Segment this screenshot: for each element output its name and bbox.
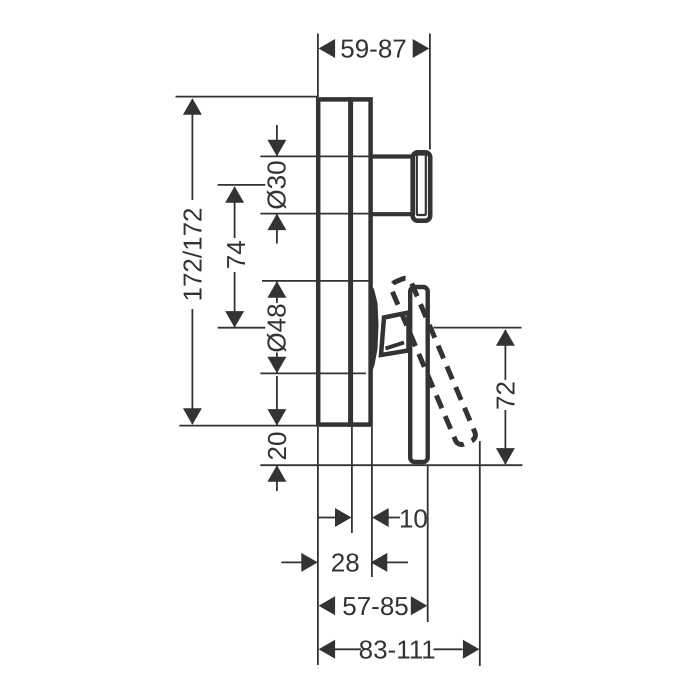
extension line plate right lower [371, 427, 373, 577]
handle lever dashed (tilted position) [389, 276, 477, 446]
spout flange outer [413, 152, 431, 220]
extension line lever right lower [427, 466, 429, 622]
reference line plate bottom [179, 425, 317, 427]
reference line top of plate [176, 96, 318, 98]
reference line pipe bottom [260, 213, 368, 215]
dim line 74 [234, 187, 236, 238]
arrow 172 top [183, 98, 202, 115]
arrow 28 left [301, 553, 318, 572]
dim tails 28 row [281, 561, 303, 563]
tick valve centerline left [218, 327, 266, 329]
arrow dia30 top [267, 140, 286, 157]
svg-text:72: 72 [490, 381, 520, 410]
pipe spout bottom line [371, 212, 411, 216]
arrow 83-111 right [463, 640, 480, 659]
handle lever solid (vertical position) [410, 287, 428, 462]
svg-text:57-85: 57-85 [342, 591, 409, 621]
svg-text:83-111: 83-111 [359, 634, 436, 664]
svg-text:Ø30: Ø30 [262, 160, 292, 209]
extension line 59-87 left [317, 34, 319, 98]
arrow 72 top [496, 329, 515, 346]
arrow 10 left [335, 508, 352, 527]
reference line valve bottom [260, 372, 366, 374]
dim line 72 [504, 330, 506, 380]
arrowheads [183, 39, 515, 659]
arrow dia30 bottom [267, 214, 286, 231]
extension line 59-87 right [429, 34, 431, 150]
arrow 172 bottom [183, 408, 202, 425]
reference line valve center right [434, 327, 522, 329]
svg-text:172/172: 172/172 [177, 208, 207, 302]
extension line plate left lower [317, 427, 319, 665]
arrow 72 bottom [496, 448, 515, 465]
svg-text:28: 28 [331, 547, 360, 577]
reference line lever bottom [260, 464, 522, 466]
plate divider line [348, 97, 353, 427]
arrow 74 bottom [225, 311, 244, 328]
arrow 20 top [267, 409, 286, 426]
svg-text:74: 74 [221, 240, 251, 269]
arrow 57-85 left [319, 596, 336, 615]
hub inner detail line [386, 343, 405, 349]
arrow 28 right [371, 553, 388, 572]
arrow dia48 top [267, 281, 286, 298]
arrow 59-87 left [319, 39, 336, 58]
valve wedge on plate edge [369, 282, 379, 375]
dim tails 10 row [319, 517, 338, 519]
dim tails diameter column [276, 125, 278, 156]
tick pipe centerline [218, 184, 266, 186]
svg-text:20: 20 [262, 432, 292, 461]
pipe spout top line [371, 154, 411, 158]
arrow 20 bottom [267, 465, 286, 482]
svg-text:59-87: 59-87 [340, 34, 407, 64]
arrow 57-85 right [411, 596, 428, 615]
svg-text:Ø48: Ø48 [262, 303, 292, 352]
arrow dia48 bottom [267, 357, 286, 374]
arrow 10 right [372, 508, 389, 527]
dim tails 83-111 row [335, 648, 361, 650]
extension line divider lower [351, 427, 353, 533]
handle hub [381, 313, 409, 356]
reference line pipe top [260, 155, 368, 157]
reference line valve top [262, 280, 369, 282]
spout flange inner [417, 155, 426, 216]
arrow 74 top [225, 186, 244, 203]
arrow 59-87 right [413, 39, 430, 58]
svg-text:10: 10 [399, 503, 428, 533]
dim line 172/172 [191, 99, 193, 200]
arrow 83-111 left [319, 640, 336, 659]
escutcheon plate outer rectangle [318, 99, 370, 424]
extension line dashed-lever lower [479, 441, 481, 666]
